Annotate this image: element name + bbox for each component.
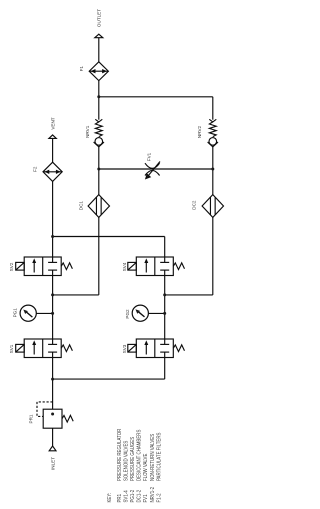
svg-text:PG1: PG1 bbox=[13, 308, 18, 318]
svg-text:SV4: SV4 bbox=[122, 262, 127, 271]
svg-text:FV1FLOW VALVE: FV1FLOW VALVE bbox=[143, 454, 149, 503]
svg-text:NRV1-2NON-RETURN VALVES: NRV1-2NON-RETURN VALVES bbox=[150, 434, 156, 503]
svg-text:PR1: PR1 bbox=[29, 414, 34, 423]
svg-text:F1-2PARTICULATE FILTERS: F1-2PARTICULATE FILTERS bbox=[156, 433, 162, 503]
svg-text:DC1: DC1 bbox=[79, 201, 84, 211]
svg-text:DC2: DC2 bbox=[191, 200, 196, 210]
svg-text:PG2: PG2 bbox=[125, 309, 130, 319]
svg-text:OUTLET: OUTLET bbox=[96, 9, 101, 27]
svg-text:SV3: SV3 bbox=[122, 344, 127, 353]
svg-text:INLET: INLET bbox=[50, 457, 55, 470]
svg-text:SV2: SV2 bbox=[9, 262, 14, 271]
svg-text:PG1-2PRESSURE GAUGES: PG1-2PRESSURE GAUGES bbox=[130, 437, 136, 503]
svg-text:DC1-2DESICCANT CHAMBERS: DC1-2DESICCANT CHAMBERS bbox=[136, 430, 142, 503]
svg-text:SV1: SV1 bbox=[9, 344, 14, 353]
svg-text:FV1: FV1 bbox=[147, 152, 152, 161]
svg-text:NRV2: NRV2 bbox=[197, 125, 202, 138]
svg-text:F1: F1 bbox=[79, 66, 84, 72]
svg-text:VENT: VENT bbox=[51, 117, 56, 129]
svg-text:NRV1: NRV1 bbox=[85, 125, 90, 138]
svg-text:PR1PRESSURE REGULATOR: PR1PRESSURE REGULATOR bbox=[117, 428, 123, 502]
svg-text:KEY:: KEY: bbox=[107, 493, 113, 503]
svg-text:SV1-4SOLENOID VALVES: SV1-4SOLENOID VALVES bbox=[123, 441, 129, 503]
svg-text:F2: F2 bbox=[32, 166, 37, 172]
